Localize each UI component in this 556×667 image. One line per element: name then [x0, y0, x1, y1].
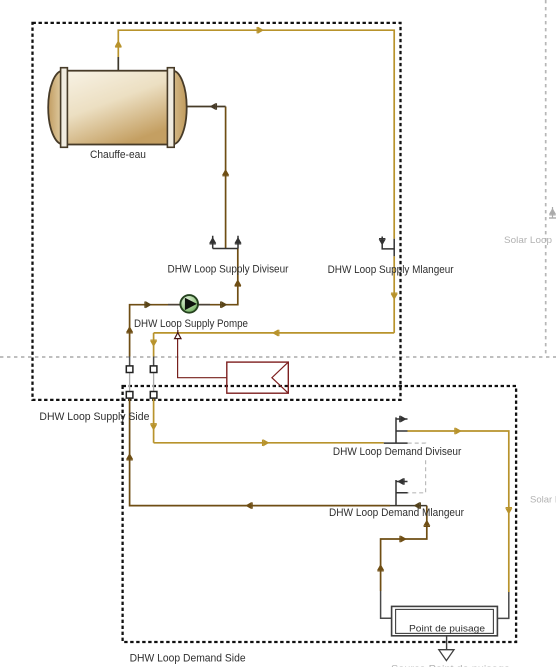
wire: gold down on demand side: [153, 398, 155, 443]
svg-text:DHW Loop Demand Mlangeur: DHW Loop Demand Mlangeur: [329, 507, 464, 519]
svg-text:DHW Loop Supply Pompe: DHW Loop Supply Pompe: [134, 318, 248, 330]
macro link square (return, lower): [126, 392, 133, 399]
Point de puisage box (double border): [392, 606, 498, 635]
svg-text:Point de puisage: Point de puisage: [409, 624, 485, 635]
wire: gold horizontal to left: [154, 332, 395, 334]
arrow up on tank outlet: [115, 41, 121, 47]
wire: puisage outlet up (dark stub): [381, 591, 392, 618]
tank Chauffe-eau: left cap: [48, 71, 78, 145]
svg-text:DHW Loop Demand Side: DHW Loop Demand Side: [130, 653, 246, 665]
puisage drain stub: [446, 636, 448, 650]
macro link square (supply hot, lower): [150, 392, 157, 399]
DHW Loop Demand Side macro border (dotted rectangle): [123, 386, 516, 642]
valve U1 DHW Loop Supply Diviseur (icon): [210, 236, 242, 249]
wire: grey link between return squares: [129, 372, 131, 392]
valve U2 DHW Loop Supply Melangeur (icon): [379, 237, 394, 257]
equation box (maroon rectangle with chevron): [227, 362, 288, 393]
tank Chauffe-eau: right cap: [158, 71, 186, 145]
arrow up brown to pump line: [126, 327, 132, 333]
arrow left on gold horizontal: [273, 330, 279, 336]
puisage drain hollow arrow: [439, 650, 454, 661]
wire: grey link between squares: [153, 372, 155, 392]
svg-text:Solar Lo: Solar Lo: [530, 495, 556, 506]
tank Chauffe-eau: left flange: [61, 68, 68, 148]
label DHW Loop Demand Diviseur background: [332, 445, 463, 458]
arrow up to supply diviseur: [235, 280, 241, 286]
wire: grey dashed bypass diviseur to melangeur: [408, 443, 426, 493]
solar loop divider (grey dashed horizontal): [0, 356, 556, 358]
controller link (maroon) with hollow arrow: [178, 339, 227, 378]
tank Chauffe-eau: right flange: [167, 68, 174, 148]
arrow left into melangeur: [415, 502, 421, 508]
wire: brown riser from puisage: [381, 506, 427, 591]
arrow right gold to puisage: [455, 428, 461, 434]
DHW Loop Supply Side macro border (dotted rectangle): [33, 23, 401, 400]
solar loop grey pipe stub: [549, 207, 556, 218]
wire: brown return up to pump line: [130, 249, 238, 357]
valve U3 DHW Loop Demand Diviseur (icon): [396, 416, 408, 443]
macro link square (return, upper): [126, 366, 133, 373]
solar loop boundary (grey dashed vertical): [545, 0, 547, 357]
wire: gold horizontal to demand diviseur: [154, 442, 384, 444]
arrow down gold before divider: [150, 340, 156, 346]
svg-text:DHW Loop Supply Side: DHW Loop Supply Side: [39, 411, 149, 423]
svg-text:DHW Loop Supply Mlangeur: DHW Loop Supply Mlangeur: [328, 264, 454, 276]
wire: dark stub into diviseur: [384, 442, 408, 444]
macro link square (supply hot, upper): [150, 366, 157, 373]
wire: dark stub into puisage box right: [497, 592, 508, 618]
arrow down gold to puisage: [506, 508, 512, 514]
svg-text:Chauffe-eau: Chauffe-eau: [90, 149, 146, 161]
wire: gold from diviseur to right: [408, 431, 509, 592]
arrow up brown from puisage: [377, 565, 383, 571]
arrow left into tank: [211, 103, 217, 109]
wire: brown riser diviseur to tank: [225, 107, 227, 249]
tank Chauffe-eau: body: [63, 71, 173, 145]
wire: gold down past supply melangeur: [393, 256, 395, 333]
wire: dark pipe section at pump: [168, 304, 210, 306]
wire: gold down to macro link: [153, 333, 155, 357]
svg-text:DHW Loop Demand Diviseur: DHW Loop Demand Diviseur: [333, 446, 462, 458]
pump DHW Loop Supply Pompe (green circle with triangle): [180, 295, 198, 313]
arrow down gold demand: [150, 424, 156, 430]
wire: dark stub into demand melangeur: [390, 505, 427, 507]
valve U4 DHW Loop Demand Melangeur (icon): [396, 478, 408, 505]
wire: tank top stub (dark): [117, 57, 119, 71]
wire: brown return to left: [130, 398, 390, 506]
arrow right brown riser: [400, 536, 406, 542]
svg-text:DHW Loop Supply Diviseur: DHW Loop Supply Diviseur: [168, 264, 289, 276]
arrow right on top gold pipe: [257, 27, 263, 33]
arrow up brown to tank: [222, 170, 228, 176]
wire: dark stub into tank right: [187, 106, 226, 108]
svg-text:Solar Loop: Solar Loop: [504, 235, 552, 246]
svg-text:Source Point de puisage: Source Point de puisage: [391, 664, 510, 667]
arrow down on right gold pipe: [391, 293, 397, 299]
arrow right gold demand feed: [263, 440, 269, 446]
wire: gold supply from tank top: [118, 30, 394, 239]
arrow up brown into melangeur: [424, 521, 430, 527]
arrow left brown return: [246, 502, 252, 508]
wire: dark stub above upper return square: [129, 357, 131, 367]
wire: dark stub to upper link square: [153, 357, 155, 367]
arrow right on pump suction: [145, 302, 151, 308]
arrow up brown return: [126, 454, 132, 460]
arrow right on pump discharge: [221, 302, 227, 308]
